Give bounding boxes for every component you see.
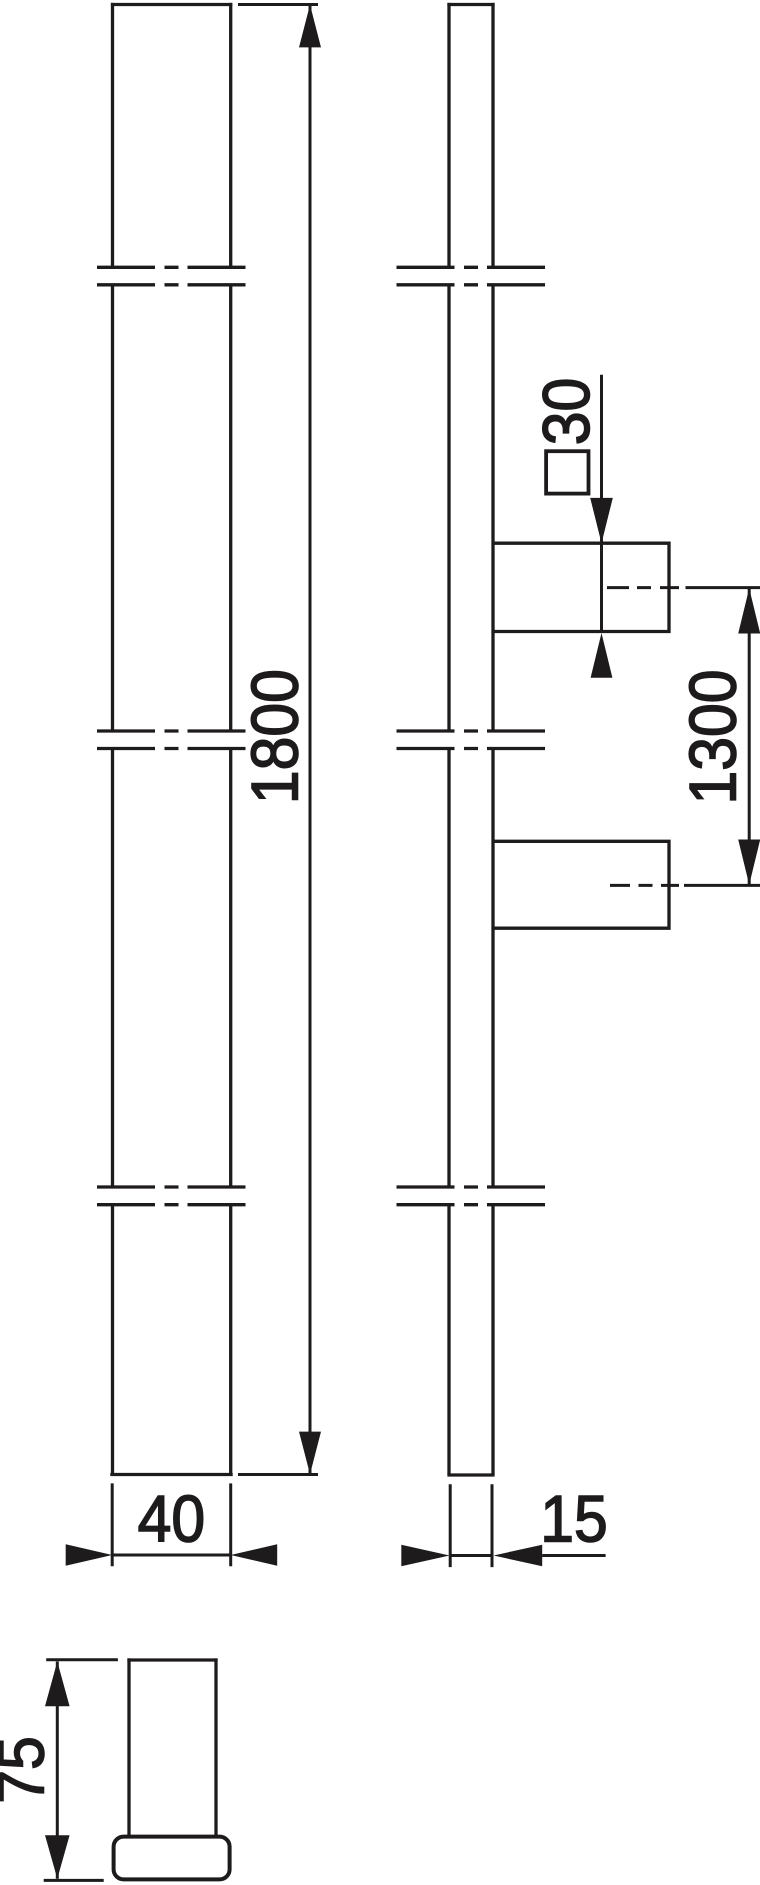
dim 75 top extension line [46, 1658, 118, 1661]
dim 40 right arrowhead [231, 1544, 278, 1566]
dim 40 left extension line [111, 1483, 114, 1566]
front bar break 3 upper line [97, 1185, 246, 1188]
dim 1800 bottom arrowhead [299, 1432, 321, 1475]
upper block center line extension [686, 586, 760, 589]
dim 30 dimension line [600, 375, 603, 632]
foot view base plate [114, 1837, 230, 1880]
foot view post left edge [127, 1658, 130, 1836]
svg-text:30: 30 [531, 378, 604, 446]
front view bar top edge [111, 3, 232, 6]
lower block center line extension [684, 884, 760, 887]
dim 75 dimension line [56, 1662, 59, 1879]
dim 15 left arrowhead [401, 1545, 449, 1567]
side bar break 1 lower line [397, 283, 546, 286]
dim 15 right tail line [542, 1554, 605, 1557]
dim 1300 top arrowhead [738, 588, 760, 633]
side view bar left edge [447, 3, 450, 1475]
dim 1300 dimension line [748, 589, 751, 884]
front view bar right edge [229, 3, 232, 1475]
dim 30 upper arrowhead [590, 498, 613, 543]
svg-text:1800: 1800 [239, 669, 312, 804]
dim 1800 top extension line [238, 3, 318, 6]
lower mounting block outline [492, 841, 670, 928]
dim 1800 bottom extension line [238, 1473, 318, 1476]
dim 75 bottom arrowhead [45, 1835, 70, 1879]
upper mounting block outline [492, 543, 670, 631]
dim 1800 top arrowhead [299, 5, 321, 48]
front bar break 3 lower line [97, 1203, 246, 1206]
dim 75 top arrowhead [45, 1662, 70, 1707]
foot view post right edge [214, 1658, 217, 1836]
side bar break 3 upper line [397, 1185, 546, 1188]
front view bar left edge [111, 3, 114, 1475]
svg-text:40: 40 [138, 1483, 206, 1556]
dim 1300 bottom arrowhead [738, 840, 760, 885]
side bar break 1 upper line [397, 266, 546, 269]
side view bar bottom edge [447, 1473, 494, 1476]
dim 15 right arrowhead [494, 1545, 543, 1567]
upper block center line dashes [607, 586, 679, 589]
svg-text:15: 15 [540, 1483, 608, 1556]
dim 15 right extension line [491, 1484, 494, 1567]
front bar break 1 upper line [97, 266, 246, 269]
side bar break 3 lower line [397, 1203, 546, 1206]
dim 75 bottom extension line [44, 1879, 104, 1882]
dim 40 right extension line [229, 1483, 232, 1566]
foot view post top edge [127, 1658, 217, 1661]
side bar break 2 upper line [397, 729, 546, 732]
dim 40 dimension line [112, 1554, 231, 1557]
dim 30 square symbol [546, 451, 588, 493]
svg-text:1300: 1300 [677, 669, 750, 804]
side view bar right edge [491, 3, 494, 1475]
front bar break 2 lower line [97, 747, 246, 750]
dim 40 left arrowhead [66, 1544, 113, 1566]
side bar break 2 lower line [397, 747, 546, 750]
dim 15 left extension line [449, 1484, 452, 1567]
front bar break 1 lower line [97, 283, 246, 286]
svg-text:75: 75 [0, 1736, 58, 1804]
front bar break 2 upper line [97, 729, 246, 732]
front view bar bottom edge [110, 1473, 232, 1476]
dim 15 dimension line [450, 1554, 492, 1557]
dim 1800 dimension line [309, 5, 312, 1475]
lower block center line dashes [610, 884, 679, 887]
side view bar top edge [447, 3, 494, 6]
dim 30 lower arrowhead [591, 633, 613, 678]
